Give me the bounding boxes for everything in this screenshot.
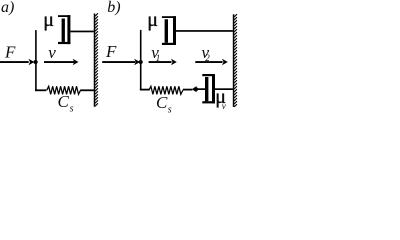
- spring Cs (a): [47, 86, 81, 94]
- wall (a): [94, 13, 98, 107]
- velocity label v1 (b): [151, 43, 160, 63]
- svg-text:s: s: [168, 105, 172, 116]
- junction dot node (a): [34, 60, 38, 64]
- spring label Cs (b): [156, 93, 172, 116]
- damper piston (b top): [165, 19, 168, 43]
- wire: spring to wall (a): [80, 89, 94, 91]
- svg-text:s: s: [70, 104, 74, 115]
- junction dot node 1 (b): [139, 60, 143, 64]
- wire: spring to junction (b): [183, 89, 193, 91]
- wire: bottom line from node to spring (a): [35, 89, 46, 91]
- svg-text:F: F: [4, 42, 16, 61]
- wire: damper cylinder to wall (b bottom): [215, 88, 233, 90]
- damper (dashpot) cylinder (b top): [162, 16, 176, 45]
- wall (b): [233, 14, 237, 107]
- junction arrowhead/dot node 2 (b): [192, 86, 198, 92]
- svg-text:v: v: [48, 43, 56, 62]
- velocity label v2 (b): [202, 43, 211, 63]
- svg-text:C: C: [156, 93, 168, 112]
- svg-text:F: F: [105, 42, 117, 61]
- damper (dashpot) cylinder (a): [58, 15, 70, 44]
- wire: force line F (b): [102, 61, 135, 63]
- damper label mu_v (b bottom): [215, 86, 226, 111]
- svg-text:μ: μ: [147, 9, 158, 31]
- wire: damper rod to wall (b top): [176, 30, 233, 32]
- damper (dashpot) cylinder (b bottom): [202, 74, 215, 103]
- svg-text:a): a): [1, 0, 14, 16]
- node bar (rigid rod) (a): [35, 30, 37, 91]
- velocity arrow v (a): [44, 59, 79, 66]
- wire: junction to damper piston (b bottom): [197, 88, 206, 90]
- arrowhead of F (b): [134, 59, 140, 66]
- wire: force line F (a): [0, 61, 29, 63]
- arrowhead of F (a): [29, 59, 35, 66]
- damper piston (a): [62, 19, 65, 42]
- wire: damper rod to wall (a): [70, 31, 93, 33]
- velocity arrow v1 (b): [149, 59, 177, 66]
- svg-text:C: C: [58, 92, 70, 111]
- spring Cs (b): [149, 86, 183, 94]
- damper piston (b bottom): [205, 77, 208, 101]
- svg-text:μ: μ: [43, 9, 54, 31]
- wire: bottom line from node 1 to spring (b): [140, 89, 149, 91]
- velocity arrow v2 (b): [195, 59, 228, 66]
- node bar (rigid rod) (b): [140, 30, 142, 91]
- svg-text:v: v: [222, 101, 226, 111]
- svg-text:b): b): [107, 0, 120, 16]
- spring label Cs (a): [58, 92, 74, 115]
